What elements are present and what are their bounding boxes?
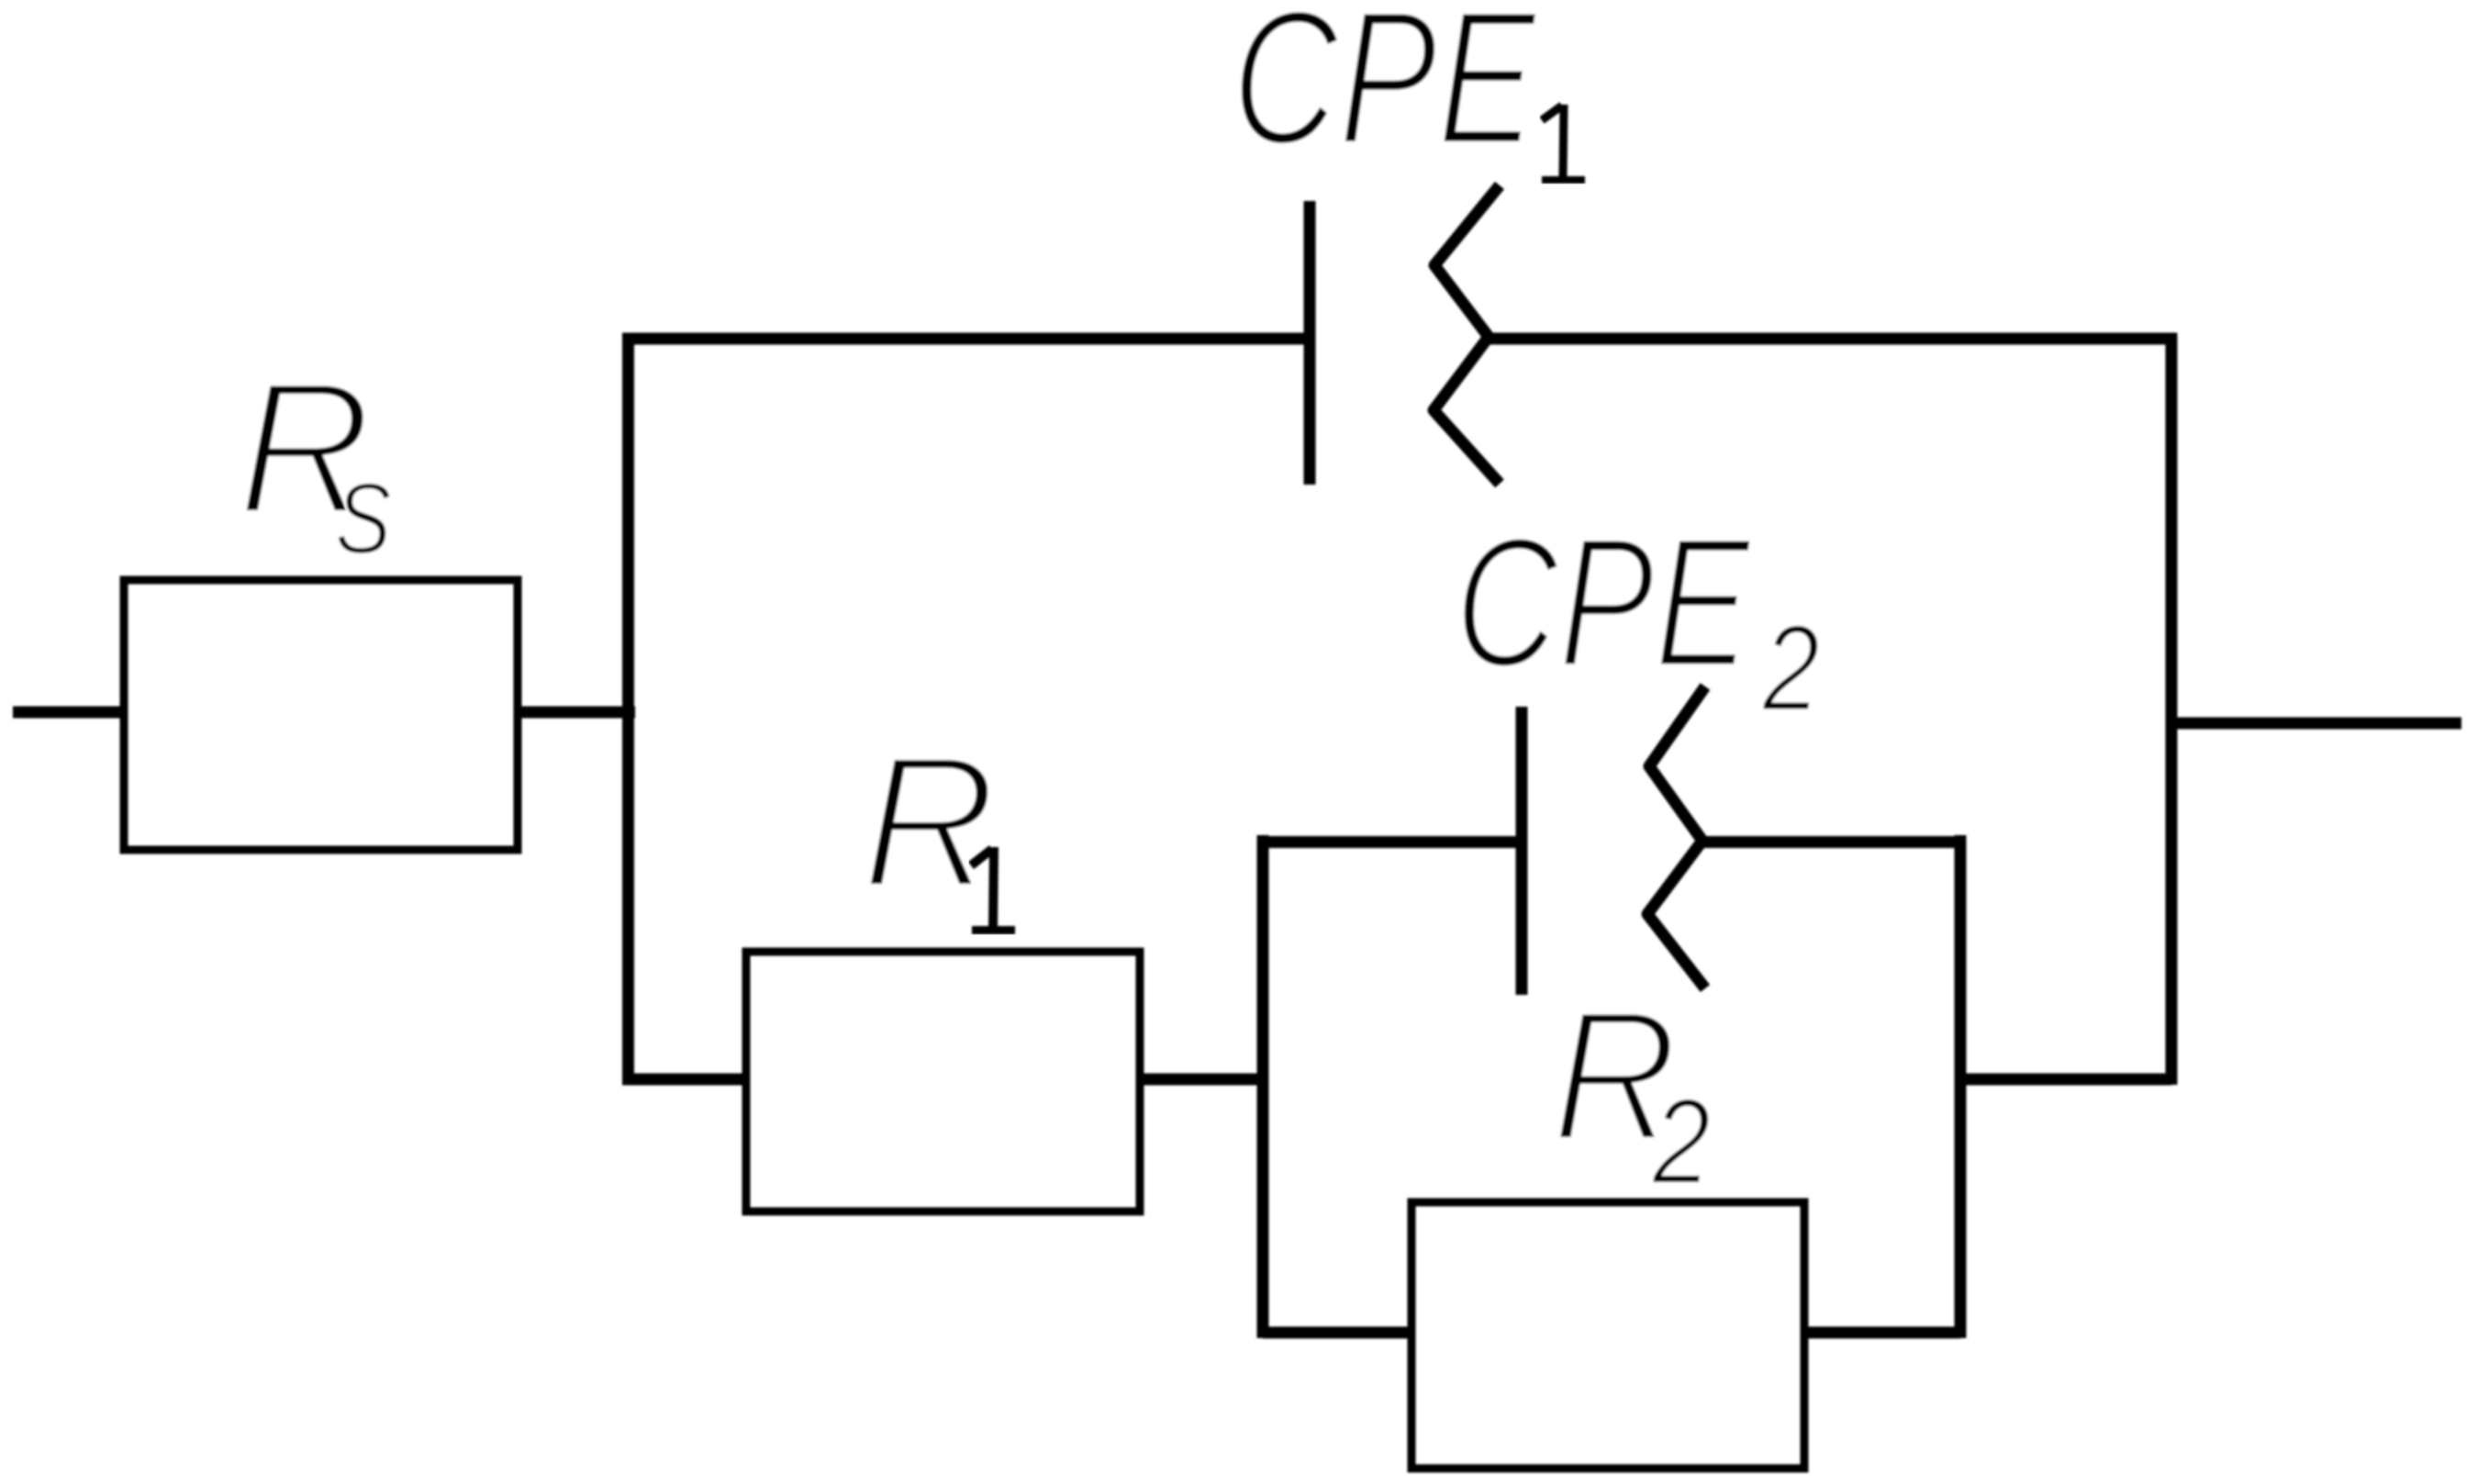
label CPE1 (1232, 0, 1538, 184)
label CPE2 (1455, 499, 1752, 707)
wire big-loop right vertical (2166, 333, 2178, 1085)
svg-text:R: R (862, 717, 997, 928)
label R1 (862, 717, 997, 928)
wire CPE2 right (1699, 836, 1966, 848)
wire bottom branch left (622, 1074, 746, 1086)
svg-text:CPE: CPE (1232, 0, 1538, 184)
wire big-loop left vertical (622, 333, 634, 1085)
svg-text:CPE: CPE (1455, 499, 1752, 707)
wire second-loop right vertical (1955, 835, 1967, 1338)
svg-text:2: 2 (1652, 1074, 1712, 1210)
wire CPE2 left (1263, 836, 1522, 848)
capacitor plate CPE2 (1516, 707, 1528, 995)
svg-text:2: 2 (1762, 600, 1821, 737)
wire CPE1 right (1487, 333, 2177, 345)
wire second-loop bottom left (1263, 1327, 1411, 1339)
capacitor plate CPE1 (1304, 201, 1316, 485)
resistor R1 (746, 952, 1140, 1211)
wire CPE1 left (622, 333, 1310, 345)
wire second-loop left vertical (1257, 835, 1269, 1338)
resistor Rs (124, 580, 518, 850)
wire left lead (13, 707, 124, 719)
zigzag plate CPE2 (1647, 686, 1705, 988)
label Rs (238, 342, 372, 554)
label R2 (1552, 971, 1679, 1180)
zigzag plate CPE1 (1434, 185, 1500, 484)
wire R2 right (1804, 1327, 1960, 1339)
wire right lead (2171, 718, 2461, 730)
svg-text:S: S (335, 462, 392, 575)
resistor R2 (1411, 1202, 1804, 1468)
wire node C to big-loop right (1960, 1074, 2171, 1086)
wire Rs to node A (518, 707, 635, 719)
wire R1 to node B (1140, 1074, 1268, 1086)
